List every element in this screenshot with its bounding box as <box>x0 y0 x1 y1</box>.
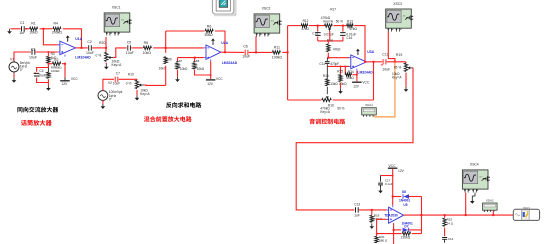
capacitor C12 10uF <box>380 53 390 72</box>
svg-text:TDA2030: TDA2030 <box>384 213 398 217</box>
wire R9 to mixer rail <box>165 66 167 86</box>
bottom rail right <box>333 99 374 101</box>
svg-text:0°: 0° <box>109 97 113 101</box>
non-inverting row of U3A <box>327 65 349 67</box>
capacitor C17 0.1uF decoupling <box>378 176 393 186</box>
svg-text:C13: C13 <box>354 203 360 207</box>
svg-text:R17: R17 <box>330 8 336 12</box>
svg-text:VCC: VCC <box>388 164 396 168</box>
capacitor C2 10uF <box>86 40 94 55</box>
svg-text:13kΩ: 13kΩ <box>330 82 338 86</box>
resistor R15 13k <box>323 66 339 86</box>
bias row to U2A non-inverting input <box>178 57 204 59</box>
svg-text:R10: R10 <box>128 72 134 76</box>
svg-text:10kΩ: 10kΩ <box>143 51 152 55</box>
op-amp U2A LM324AD <box>204 41 238 65</box>
wire V1 to C3 <box>14 52 31 61</box>
wire TDA output row <box>404 214 514 216</box>
svg-text:LM324AD: LM324AD <box>357 70 373 74</box>
capacitor C16 0.01uF <box>340 26 356 41</box>
node R3/R2 <box>47 64 49 67</box>
VCC bar 12V power stage <box>388 164 405 173</box>
svg-text:R15: R15 <box>323 74 329 78</box>
wire TDA inverting input to feedback <box>377 219 387 233</box>
resistor R11 100k <box>272 45 283 59</box>
svg-text:0 %: 0 % <box>126 81 132 85</box>
orange wire to XDA1 <box>374 62 395 117</box>
oscilloscope XSC2 <box>254 7 282 37</box>
svg-text:10uF: 10uF <box>126 51 134 55</box>
ground under V2 <box>102 100 104 104</box>
svg-text:10uF: 10uF <box>242 55 250 59</box>
label stage1 red <box>21 120 27 126</box>
svg-text:LM324AD: LM324AD <box>222 61 238 65</box>
XDA2 probe wire <box>492 211 494 215</box>
wire U3A bottom pin to VCC bar <box>356 71 358 82</box>
svg-text:470pF: 470pF <box>330 62 339 66</box>
ground under R20 <box>105 63 107 65</box>
label stage2 red <box>144 116 150 122</box>
ground under R10 <box>136 90 138 96</box>
ground under V1 <box>13 73 15 78</box>
wire C4 bottom loop <box>37 78 49 83</box>
svg-text:U5: U5 <box>403 203 407 207</box>
svg-text:XSC2: XSC2 <box>262 7 271 11</box>
source V2 100mVpk 1kHz <box>98 81 123 102</box>
bottom rail of tone control <box>288 99 322 101</box>
svg-text:1uF: 1uF <box>19 31 25 35</box>
wire feedback R4 to U1A output <box>63 29 82 48</box>
resistor R6 30k feedback <box>204 24 213 37</box>
svg-text:Key=A: Key=A <box>392 76 402 80</box>
tone input column <box>287 26 289 100</box>
svg-text:Key=A: Key=A <box>140 92 150 96</box>
wire R11 to tone input node <box>282 51 287 53</box>
wire C5 to R5 <box>131 47 143 49</box>
ground for XSC4 channel B <box>472 193 475 199</box>
svg-text:Key=A: Key=A <box>323 19 333 23</box>
resistor R5 10k <box>143 41 152 55</box>
diode D6 1N4001 <box>393 190 422 203</box>
node junction at R1/R4 <box>40 28 53 30</box>
svg-text:VCC: VCC <box>216 77 223 81</box>
svg-text:200kΩ: 200kΩ <box>52 31 63 35</box>
svg-text:10uF: 10uF <box>29 55 37 59</box>
svg-text:VCC: VCC <box>71 77 78 81</box>
resistor R8 100k <box>47 65 63 78</box>
oscilloscope XSC4 probe wire <box>465 193 467 216</box>
capacitor C13 1uF <box>354 203 360 218</box>
op-amp U3A LM324AD <box>349 50 375 74</box>
svg-text:100kΩ: 100kΩ <box>51 69 60 73</box>
svg-text:R7: R7 <box>179 59 183 63</box>
VCC bar 12V stage1 <box>60 77 78 86</box>
svg-text:220kΩ: 220kΩ <box>401 235 411 239</box>
label stage2 black <box>166 102 171 108</box>
svg-text:0 %: 0 % <box>96 54 102 58</box>
resistor R3 1k <box>47 52 57 63</box>
oscilloscope XSC1 <box>104 6 132 36</box>
svg-text:XSC1: XSC1 <box>112 6 121 10</box>
resistor R1 10k <box>29 22 38 35</box>
svg-text:R8: R8 <box>196 59 200 63</box>
svg-text:R11: R11 <box>274 45 280 49</box>
svg-text:10kΩ: 10kΩ <box>180 67 188 71</box>
wire bias to VCC pin <box>195 70 211 75</box>
svg-text:XSC3: XSC3 <box>393 2 402 6</box>
wire R2 to VCC bar stage1 <box>64 64 66 78</box>
wire C3 to U1A non-inverting input <box>36 51 58 53</box>
svg-text:10uF: 10uF <box>113 81 120 85</box>
svg-text:10uF: 10uF <box>86 51 94 55</box>
svg-text:0.01uF: 0.01uF <box>324 32 334 36</box>
svg-text:XDA1: XDA1 <box>365 103 373 107</box>
svg-text:C15: C15 <box>312 32 318 36</box>
wire R23 to C14 <box>444 228 446 237</box>
power op-amp U5 TDA2030 <box>384 203 408 225</box>
svg-text:47kΩ: 47kΩ <box>301 27 309 31</box>
label stage1 black <box>17 107 22 112</box>
svg-text:0°: 0° <box>20 68 24 72</box>
oscilloscope XSC3 <box>386 2 414 32</box>
svg-text:10uF: 10uF <box>38 74 45 78</box>
VCC rail down to TDA top pin <box>392 169 394 205</box>
svg-text:U2A: U2A <box>221 41 228 45</box>
svg-text:Key=A: Key=A <box>112 63 123 67</box>
resistor R14 47k <box>327 38 341 51</box>
svg-text:50 %: 50 % <box>337 107 344 111</box>
wire U2A output to C6 <box>221 51 244 53</box>
source V1 5mVpk 1kHz <box>9 57 30 73</box>
oscilloscope XSC4 <box>462 163 490 193</box>
capacitor C1 1uF <box>19 21 25 35</box>
svg-text:Key=A: Key=A <box>320 110 330 114</box>
svg-text:R1: R1 <box>31 22 36 26</box>
VCC arrow U3A <box>357 51 359 55</box>
svg-text:47kΩ: 47kΩ <box>349 27 357 31</box>
node B1 <box>309 25 325 27</box>
wire XSC2 probe down <box>255 36 257 52</box>
potentiometer R17 470k Key=A (bass) <box>321 8 343 32</box>
wire input to C1 <box>11 28 21 30</box>
wire D6 loop to output <box>421 197 423 234</box>
wire C4 loop <box>37 68 49 72</box>
resistor R18 270k to ground <box>370 210 383 222</box>
svg-text:R13: R13 <box>347 19 353 23</box>
svg-text:R19: R19 <box>396 53 402 57</box>
wire C1 to R1 <box>25 28 29 30</box>
svg-text:85 %: 85 % <box>394 65 401 69</box>
svg-text:680 Ω: 680 Ω <box>379 239 388 243</box>
capacitor C5 10uF <box>126 40 134 55</box>
svg-text:R2: R2 <box>54 58 58 62</box>
capacitor C3 10uF <box>29 47 37 59</box>
svg-text:C16: C16 <box>346 36 352 40</box>
wire XSC1 probe down <box>105 37 107 48</box>
capacitor C11 470pF <box>319 58 339 67</box>
VCC bar 12V stage2 <box>206 77 223 86</box>
node B2 <box>334 25 347 27</box>
resistor R8b 10k bias to VCC <box>193 58 205 71</box>
wire U2A inverting input <box>166 47 204 49</box>
potentiometer R19 10k Key=A (volume) <box>392 53 413 80</box>
orange stub into XDA1 <box>373 115 375 117</box>
svg-text:C3: C3 <box>31 47 36 51</box>
capacitor C7 10uF <box>113 71 120 85</box>
svg-text:0.1uF: 0.1uF <box>385 182 393 186</box>
svg-text:R4: R4 <box>54 22 59 26</box>
svg-text:100kΩ: 100kΩ <box>272 55 283 59</box>
svg-text:10kΩ: 10kΩ <box>29 31 38 35</box>
capacitor C14 <box>442 237 454 243</box>
svg-text:U3A: U3A <box>367 50 374 54</box>
resistor R7 10k bias to ground <box>176 58 188 71</box>
svg-text:R12: R12 <box>303 19 309 23</box>
svg-text:D6: D6 <box>402 190 406 194</box>
potentiometer R16 470k (treble) <box>320 98 344 114</box>
distortion analyzer XDA1 <box>362 103 377 117</box>
wire V2 to C7 <box>103 79 114 90</box>
svg-text:XSC4: XSC4 <box>470 163 479 167</box>
wire R20 wiper to C5 <box>113 48 126 58</box>
svg-text:R20: R20 <box>99 41 105 45</box>
wire R5 to summing node <box>153 47 166 49</box>
VCC arrow U2A <box>212 41 214 45</box>
wire U3A output <box>367 61 383 63</box>
svg-text:C11: C11 <box>319 62 325 66</box>
svg-text:D7: D7 <box>404 225 408 229</box>
resistor R23 24 ohm load <box>443 215 454 226</box>
ground under C4 network <box>47 79 49 85</box>
svg-text:XDA2: XDA2 <box>486 198 494 202</box>
resistor R25 vertical <box>337 66 347 87</box>
TDA bottom pin to ground rail <box>393 223 395 244</box>
VCC bar 12V stage3 <box>352 81 370 89</box>
resistor R12 47k <box>301 19 309 31</box>
wire C12 to R19 node <box>387 61 406 63</box>
wire summing node column <box>165 31 167 53</box>
svg-text:10uF: 10uF <box>382 67 390 71</box>
wire node to U1A inverting input <box>43 29 57 45</box>
ground under R18 <box>371 222 373 225</box>
label stage3 red <box>310 119 315 125</box>
svg-text:U1A: U1A <box>75 37 82 41</box>
resistor R22 220k feedback <box>377 232 422 239</box>
svg-text:30kΩ: 30kΩ <box>204 33 213 37</box>
ground G1 (input) <box>9 29 11 31</box>
feedback column to bottom rail <box>373 62 375 100</box>
wire C2 to node R20 <box>92 47 106 49</box>
wire C6 to R11 <box>249 51 273 53</box>
svg-text:R5: R5 <box>144 41 149 45</box>
svg-text:12V: 12V <box>353 84 360 88</box>
svg-text:47kΩ: 47kΩ <box>333 47 341 51</box>
svg-text:VCC: VCC <box>362 81 369 85</box>
svg-text:12V: 12V <box>398 169 405 173</box>
svg-text:1uF: 1uF <box>354 214 360 218</box>
wire R14 to U3A inverting input <box>328 53 349 58</box>
wiper link to R16 pot <box>326 87 328 94</box>
ground under R25 <box>340 83 342 89</box>
XSC3 probe jog <box>388 31 395 61</box>
ground under bias R7 <box>177 70 179 77</box>
VCC arrow U1A <box>67 38 69 42</box>
distortion analyzer XDA2 <box>483 198 498 212</box>
ground under C17 <box>380 185 382 188</box>
svg-text:C1: C1 <box>20 21 25 25</box>
svg-text:R9: R9 <box>168 57 172 61</box>
wire C13 to TDA input <box>359 209 386 211</box>
svg-text:10kΩ: 10kΩ <box>197 67 205 71</box>
capacitor C4 10uF <box>34 69 46 78</box>
resistor R2 <box>48 58 65 65</box>
wire R6 to U2A output <box>215 31 225 52</box>
potentiometer R10 10k Key=A <box>126 72 151 96</box>
wire U1A output <box>76 47 88 49</box>
resistor R21 680 ohm <box>375 233 388 243</box>
svg-text:C4: C4 <box>39 69 43 73</box>
wire C7 to R10 <box>119 78 137 80</box>
svg-text:V2: V2 <box>108 81 112 85</box>
svg-text:C5: C5 <box>127 40 132 44</box>
potentiometer R20 10k Key=A <box>96 41 123 67</box>
svg-text:12V: 12V <box>62 82 69 86</box>
wire R10 wiper to mixer rail <box>144 84 166 86</box>
resistor R9 10k vertical <box>159 57 172 71</box>
bass wiper rail <box>318 40 343 42</box>
speaker instrument XLV1 <box>513 206 539 221</box>
svg-text:C14: C14 <box>448 237 454 241</box>
diode D7 1N4001 <box>394 222 422 232</box>
red polarity arrow C4 <box>33 72 36 74</box>
svg-text:R14: R14 <box>327 38 333 42</box>
svg-text:50 %: 50 % <box>336 19 343 23</box>
wire U2A bottom pin to VCC bar <box>210 61 212 79</box>
svg-text:R6: R6 <box>207 24 212 28</box>
svg-text:12V: 12V <box>207 82 214 86</box>
svg-text:10kΩ: 10kΩ <box>346 76 354 80</box>
ground under R19 <box>405 73 407 87</box>
svg-text:LM324AD: LM324AD <box>75 56 91 60</box>
floating window icon <box>212 0 236 16</box>
treble row left wire <box>288 25 302 27</box>
svg-text:C2: C2 <box>87 40 92 44</box>
wire feedback R6 row <box>166 30 205 32</box>
resistor R24 10k <box>345 66 357 81</box>
op-amp U1A LM324AD <box>58 37 92 60</box>
svg-text:C6: C6 <box>243 45 248 49</box>
wire R13 feedback to U3A output <box>354 26 365 62</box>
svg-text:C7: C7 <box>116 71 120 75</box>
resistor R4 200k (feedback) <box>52 22 63 35</box>
capacitor C6 10uF <box>242 45 250 59</box>
capacitor C15 0.01uF <box>312 26 333 41</box>
resistor R13 47k <box>347 19 358 31</box>
svg-text:1N4001: 1N4001 <box>399 199 410 203</box>
svg-text:R25: R25 <box>337 70 343 74</box>
wire R19 wiper down to power stage <box>296 68 413 210</box>
svg-text:24 Ω: 24 Ω <box>447 221 454 225</box>
